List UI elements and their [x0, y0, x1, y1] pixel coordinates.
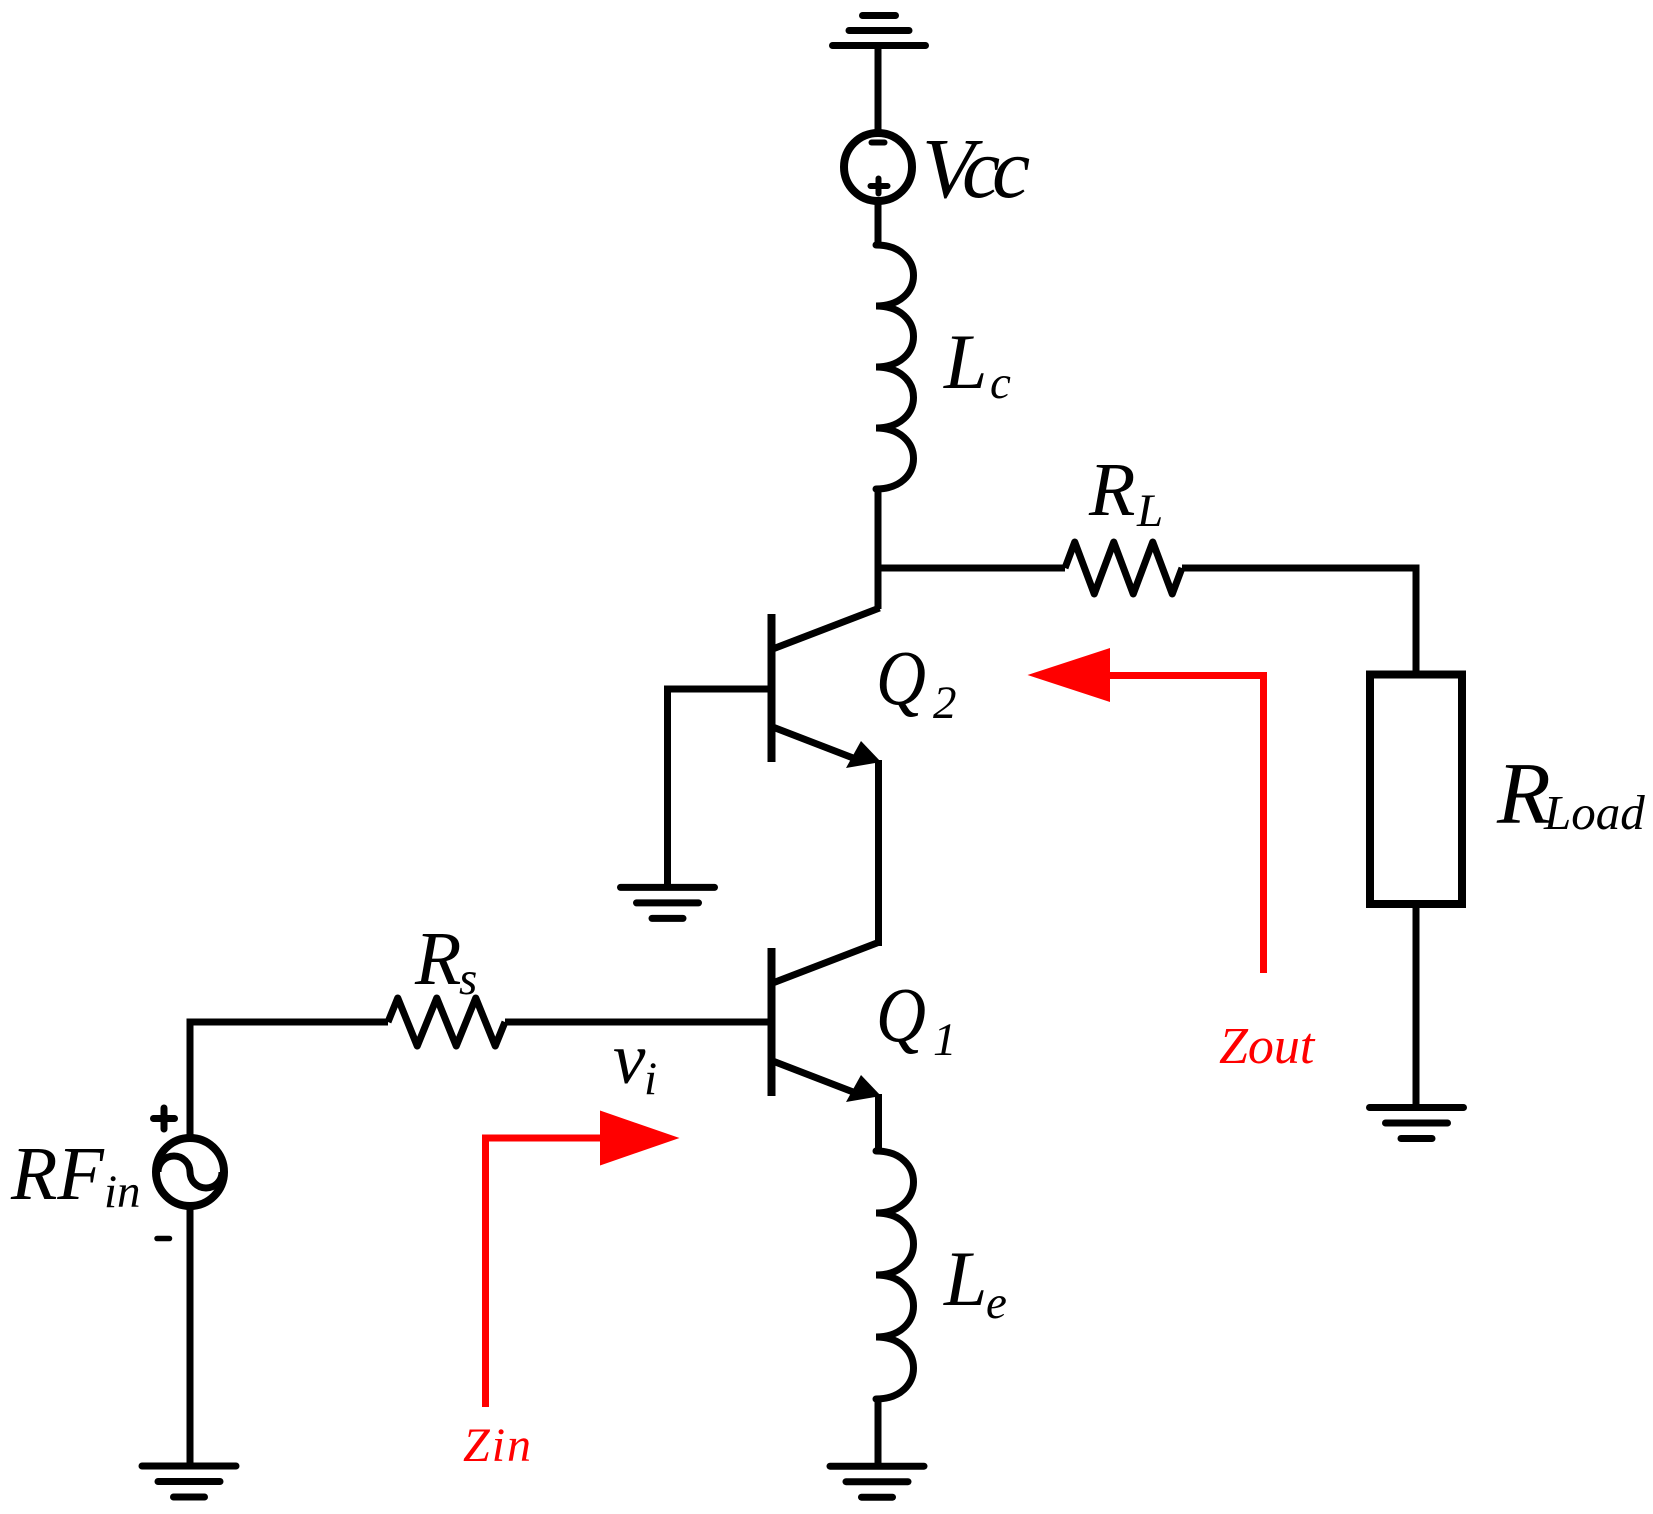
svg-text:L: L: [1136, 485, 1163, 537]
svg-text:Q: Q: [876, 971, 926, 1058]
svg-text:in: in: [104, 1166, 141, 1218]
svg-text:L: L: [943, 1235, 987, 1322]
svg-text:Zin: Zin: [463, 1419, 533, 1472]
svg-text:Q: Q: [876, 634, 926, 721]
svg-text:c: c: [990, 357, 1011, 409]
svg-text:RF: RF: [10, 1132, 105, 1216]
svg-text:Load: Load: [1543, 785, 1645, 840]
svg-text:R: R: [1088, 448, 1135, 532]
svg-text:c: c: [992, 120, 1030, 216]
svg-text:2: 2: [933, 677, 957, 729]
svg-text:v: v: [613, 1018, 646, 1099]
svg-text:i: i: [644, 1053, 657, 1105]
svg-text:R: R: [414, 917, 461, 1001]
svg-text:Zout: Zout: [1219, 1018, 1316, 1075]
svg-text:s: s: [459, 953, 477, 1005]
svg-text:1: 1: [933, 1014, 957, 1066]
svg-text:L: L: [943, 318, 987, 405]
svg-text:e: e: [986, 1277, 1007, 1329]
svg-text:R: R: [1496, 746, 1551, 843]
